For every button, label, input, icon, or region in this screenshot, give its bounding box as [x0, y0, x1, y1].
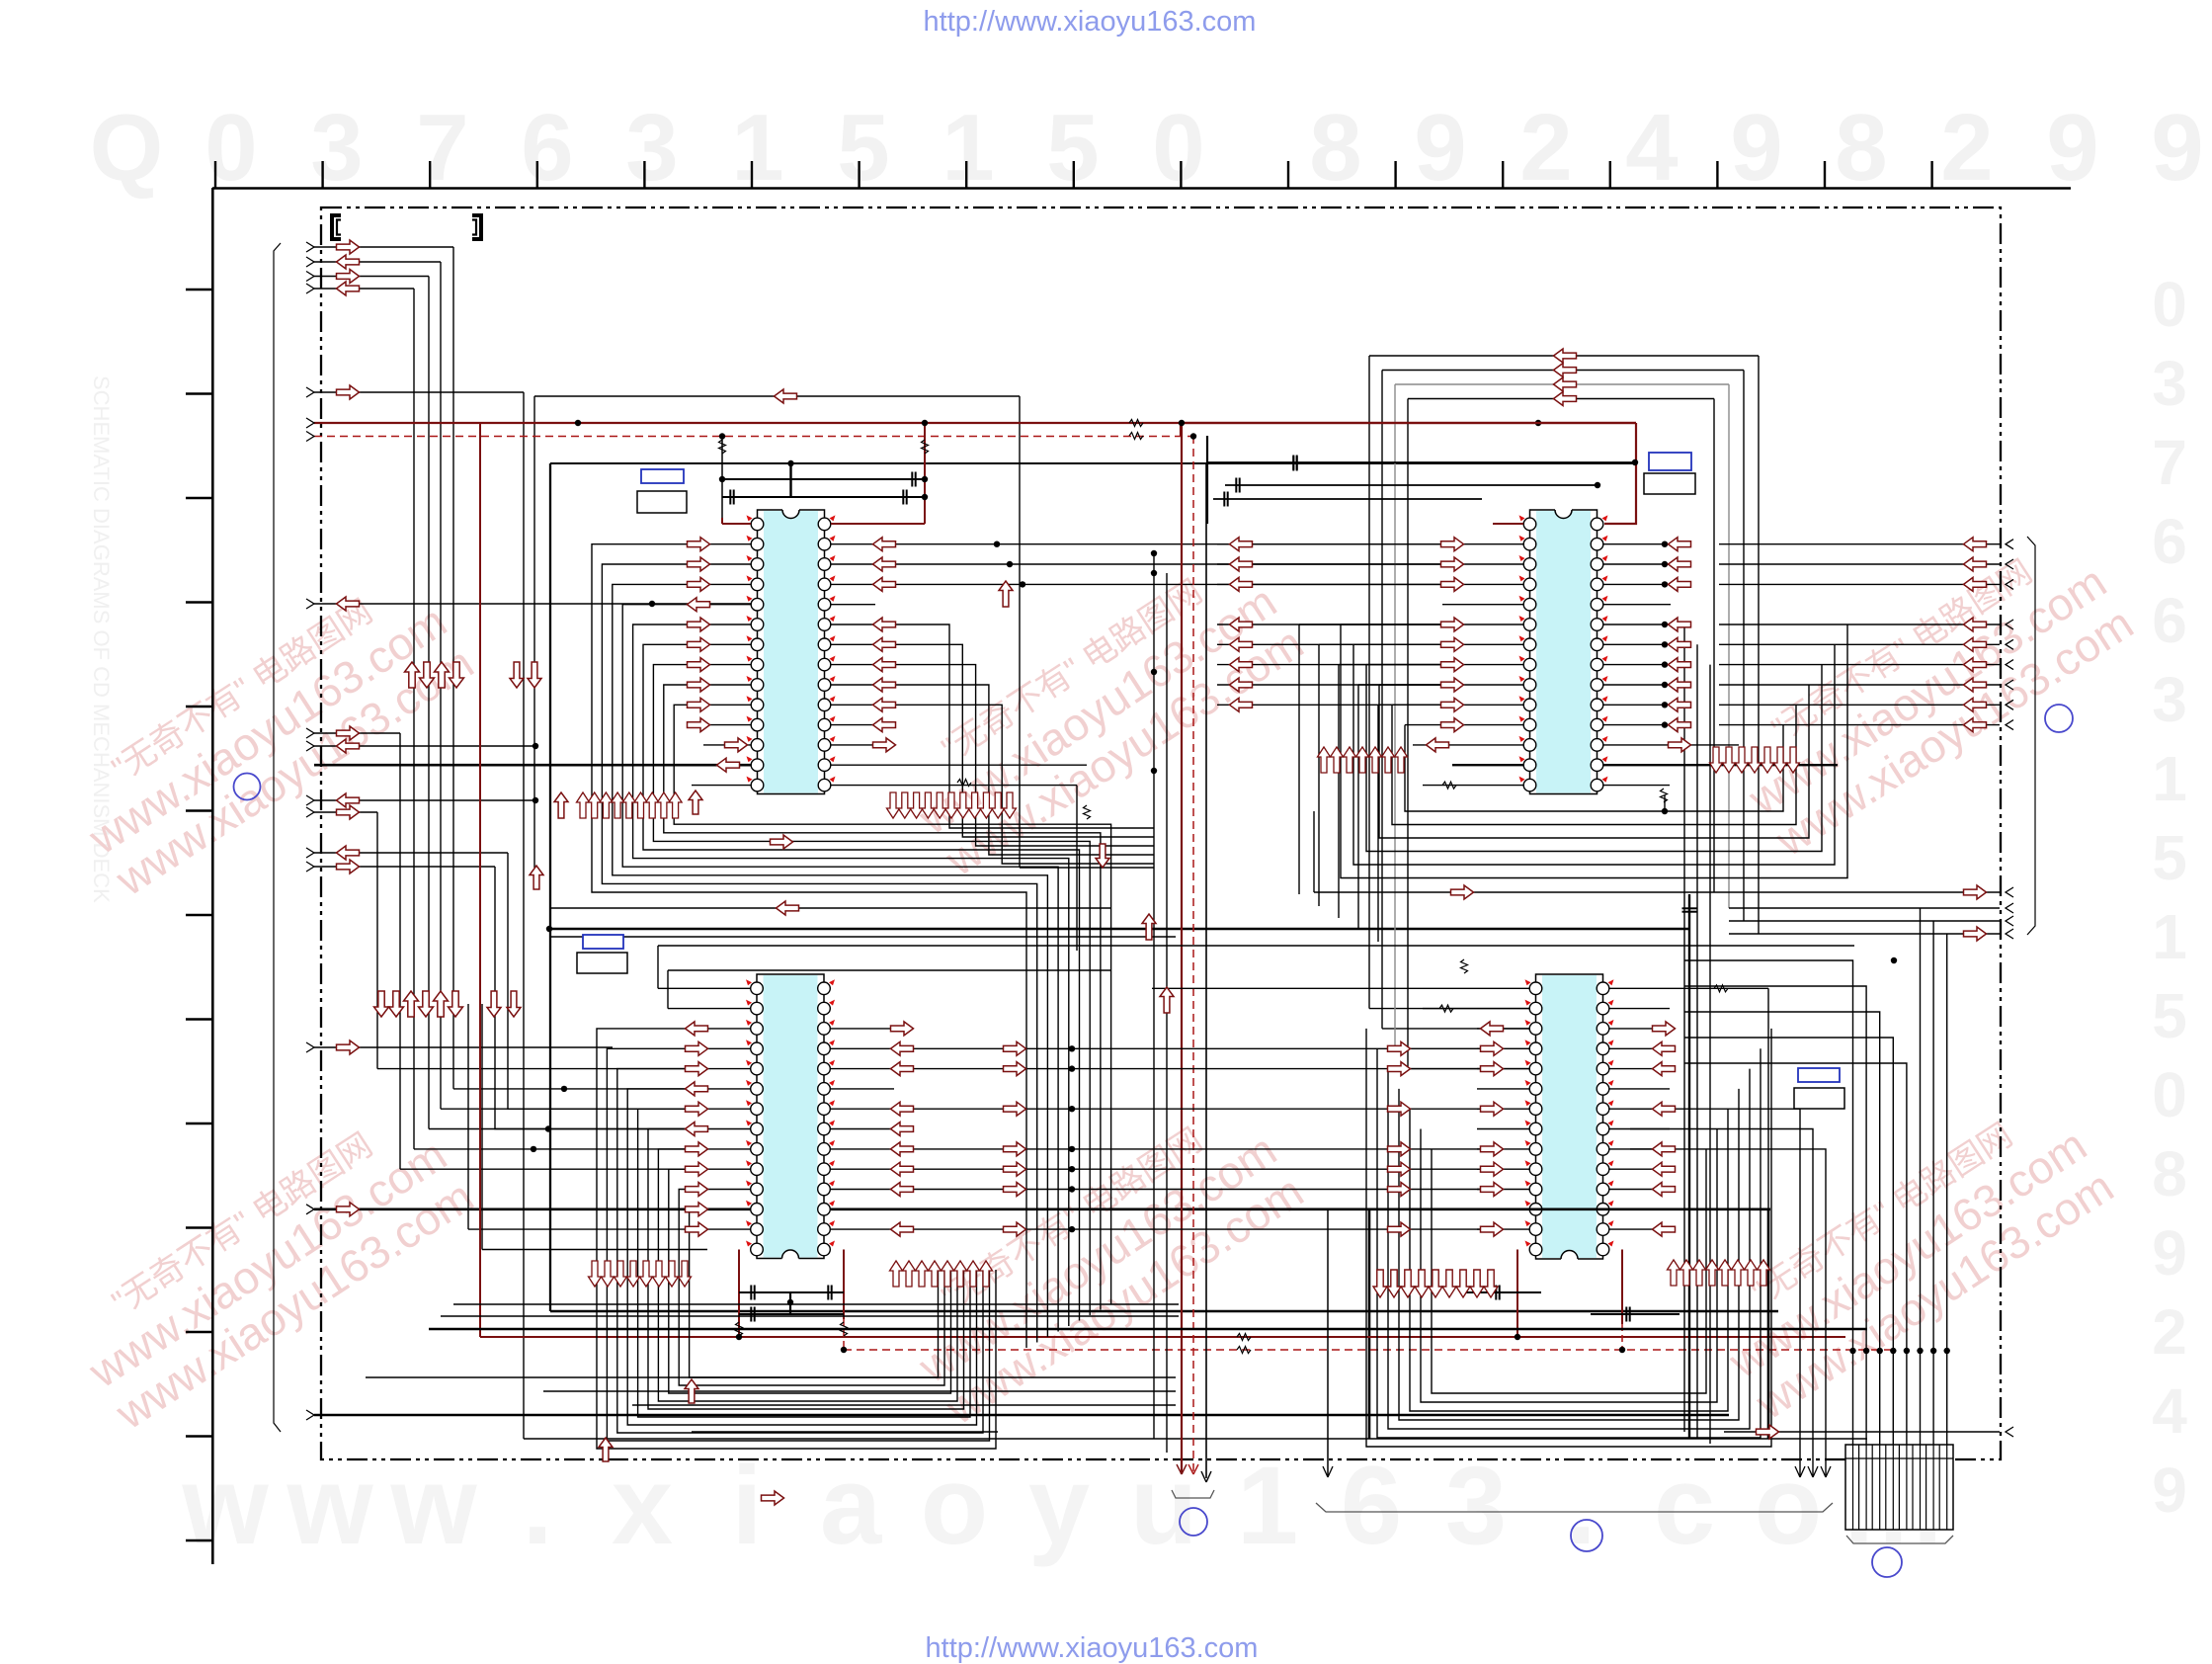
svg-text:6: 6	[2152, 585, 2187, 656]
svg-text:.: .	[1565, 1444, 1596, 1567]
svg-text:6: 6	[2152, 506, 2187, 577]
svg-text:.: .	[522, 1444, 552, 1567]
svg-text:8: 8	[1309, 95, 1361, 201]
svg-text:2: 2	[1519, 95, 1572, 201]
svg-text:9: 9	[1730, 95, 1782, 201]
svg-text:9: 9	[2151, 95, 2203, 201]
svg-text:0: 0	[2152, 1059, 2187, 1130]
svg-text:7: 7	[416, 95, 468, 201]
svg-text:1: 1	[1237, 1444, 1298, 1567]
svg-text:9: 9	[1414, 95, 1466, 201]
svg-text:1: 1	[2152, 901, 2187, 972]
svg-text:w: w	[286, 1444, 373, 1567]
svg-text:8: 8	[1835, 95, 1887, 201]
svg-text:3: 3	[2152, 664, 2187, 735]
svg-text:9: 9	[2152, 1217, 2187, 1289]
svg-text:a: a	[820, 1444, 882, 1567]
svg-text:x: x	[612, 1444, 673, 1567]
svg-text:3: 3	[625, 95, 678, 201]
svg-text:http://www.xiaoyu163.com: http://www.xiaoyu163.com	[924, 6, 1257, 38]
svg-text:7: 7	[2152, 427, 2187, 498]
svg-text:6: 6	[521, 95, 573, 201]
svg-text:5: 5	[837, 95, 889, 201]
svg-text:2: 2	[1940, 95, 1993, 201]
svg-text:w: w	[181, 1444, 269, 1567]
svg-text:w: w	[389, 1444, 477, 1567]
svg-text:0: 0	[205, 95, 257, 201]
svg-text:4: 4	[2152, 1375, 2187, 1447]
svg-text:2: 2	[2152, 1296, 2187, 1368]
svg-text:9: 9	[2152, 1455, 2187, 1526]
svg-text:o: o	[1755, 1444, 1822, 1567]
svg-text:8: 8	[2152, 1138, 2187, 1209]
svg-text:3: 3	[1445, 1444, 1507, 1567]
svg-text:c: c	[1654, 1444, 1715, 1567]
svg-text:1: 1	[942, 95, 994, 201]
svg-text:Q: Q	[90, 95, 164, 201]
svg-text:6: 6	[1341, 1444, 1402, 1567]
svg-text:3: 3	[2152, 348, 2187, 419]
svg-text:5: 5	[2152, 822, 2187, 893]
svg-text:u: u	[1130, 1444, 1197, 1567]
svg-text:0: 0	[2152, 269, 2187, 340]
svg-text:1: 1	[2152, 743, 2187, 814]
svg-text:http://www.xiaoyu163.com: http://www.xiaoyu163.com	[926, 1632, 1259, 1664]
svg-text:9: 9	[2046, 95, 2098, 201]
svg-text:o: o	[921, 1444, 988, 1567]
svg-text:i: i	[731, 1444, 762, 1567]
svg-text:0: 0	[1152, 95, 1204, 201]
svg-text:y: y	[1028, 1444, 1090, 1567]
svg-text:5: 5	[2152, 980, 2187, 1051]
svg-text:1: 1	[731, 95, 783, 201]
svg-text:3: 3	[310, 95, 363, 201]
svg-text:4: 4	[1625, 95, 1678, 201]
